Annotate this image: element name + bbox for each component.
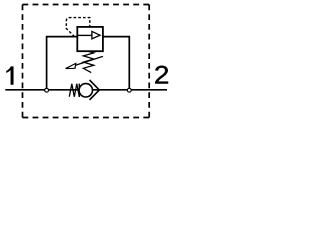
node 1 port label: [6, 66, 13, 84]
node junction at port 2 branch: [127, 88, 131, 92]
svg-text:2: 2: [154, 61, 169, 89]
relief valve V1 adjustment arrow: [72, 56, 103, 66]
wire left branch riser: [47, 37, 78, 90]
pilot line dashed: [66, 18, 90, 37]
node junction at port 1 branch: [45, 88, 49, 92]
check valve CV1 ball: [79, 84, 92, 97]
relief valve V1 flow arrow: [77, 34, 92, 36]
check valve CV1 spring: [69, 84, 79, 97]
wire main line port1 to port2: [5, 89, 167, 91]
wire right branch riser: [103, 37, 129, 90]
check valve CV1 seat: [90, 80, 100, 100]
relief valve V1 body: [77, 27, 103, 51]
relief valve V1 adjustable spring: [83, 51, 93, 72]
enclosure dashed boundary (component envelope): [23, 5, 150, 118]
check valve CV1 seat plate: [78, 84, 80, 97]
